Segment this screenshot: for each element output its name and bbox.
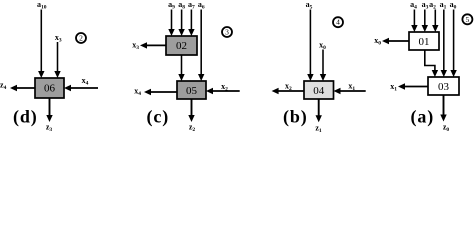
svg-text:2: 2 bbox=[79, 34, 83, 43]
svg-text:06: 06 bbox=[44, 83, 56, 95]
output wire x0 (left of 01) bbox=[387, 40, 409, 42]
circled node 4 bbox=[333, 17, 343, 27]
wire 02 output into block 05 bbox=[181, 55, 183, 75]
wire x3 into block 06 bbox=[57, 42, 59, 72]
wire a3 into block 01 bbox=[424, 10, 426, 27]
circled node 3 bbox=[222, 27, 232, 37]
input wire x2 (right of 05) bbox=[211, 90, 240, 92]
svg-text:03: 03 bbox=[438, 81, 450, 93]
block 03 bbox=[428, 77, 459, 95]
wire a2 into block 01 bbox=[434, 10, 436, 27]
input wire x1 (right of 04) bbox=[339, 90, 366, 92]
wire a5 into block 04 bbox=[309, 10, 311, 76]
svg-text:4: 4 bbox=[336, 18, 340, 27]
block 04 bbox=[304, 81, 334, 99]
block 05 bbox=[177, 81, 206, 99]
output wire z0 (bottom) bbox=[443, 95, 445, 116]
wire 01 output bend into block 03 bbox=[425, 50, 435, 72]
wire a1 into block 03 bbox=[443, 10, 445, 72]
svg-text:01: 01 bbox=[419, 36, 430, 48]
block 06 bbox=[35, 78, 64, 98]
wire a6 into block 05 bbox=[200, 10, 202, 76]
wire a8 into block 02 bbox=[181, 10, 183, 31]
svg-text:(b): (b) bbox=[283, 107, 308, 128]
svg-text:(c): (c) bbox=[147, 107, 170, 128]
svg-text:04: 04 bbox=[313, 85, 325, 97]
output wire z1 (bottom) bbox=[318, 99, 320, 116]
input wire x4 (right) bbox=[69, 87, 98, 89]
output wire z4 (left) bbox=[15, 87, 35, 89]
circled node 5 bbox=[462, 14, 472, 24]
output wire x1 (left of 03) bbox=[403, 86, 428, 88]
svg-text:02: 02 bbox=[176, 40, 187, 52]
output wire x4 (left of 05) bbox=[149, 91, 177, 93]
output wire z3 (bottom) bbox=[49, 98, 51, 116]
circled node 2 bbox=[76, 33, 86, 43]
svg-text:3: 3 bbox=[225, 28, 229, 37]
wire a10 into block 06 bbox=[40, 10, 42, 73]
svg-text:(a): (a) bbox=[411, 107, 435, 128]
svg-text:5: 5 bbox=[466, 15, 470, 24]
output wire x2 (left of 04) bbox=[277, 90, 305, 92]
wire a7 into block 02 bbox=[190, 10, 192, 31]
output wire z2 (bottom) bbox=[191, 99, 193, 116]
svg-text:(d): (d) bbox=[13, 107, 38, 128]
svg-text:05: 05 bbox=[186, 85, 198, 97]
wire a0 into block 03 bbox=[453, 10, 455, 72]
wire x0 into block 04 bbox=[322, 50, 324, 76]
output wire x3 (left of 02) bbox=[145, 44, 166, 46]
block 01 bbox=[409, 32, 439, 50]
wire a9 into block 02 bbox=[171, 10, 173, 31]
wire a4 into block 01 bbox=[413, 10, 415, 27]
block 02 bbox=[166, 36, 197, 55]
